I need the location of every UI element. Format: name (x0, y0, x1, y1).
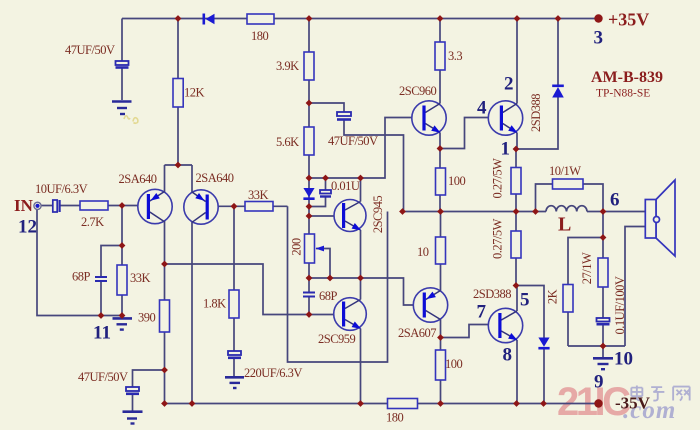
resistor 2.7K (80, 201, 108, 210)
capacitor 220UF/6.3V (228, 351, 241, 355)
resistor 3.3 (435, 42, 445, 70)
svg-text:5.6K: 5.6K (276, 135, 299, 149)
transistor Q2 2SA640 right (mirrored) (184, 190, 218, 224)
wire 0.01U cap leads (309, 178, 326, 207)
junction 68P lag bottom (306, 311, 313, 318)
wire feedback 33K to output (288, 206, 388, 362)
ground 220UF (225, 376, 244, 379)
svg-text:68P: 68P (72, 270, 91, 284)
wire 2SD388 top collector to rail / emitter to node1 (516, 19, 518, 150)
junction 2SC945 base (306, 213, 313, 220)
resistor 0.27/5W lower (511, 231, 521, 258)
resistor 5.6K (304, 127, 314, 155)
junction 47UF tap (161, 367, 168, 374)
resistor 12K (173, 79, 183, 108)
wire 68P branch (101, 246, 122, 316)
svg-text:200: 200 (290, 238, 304, 256)
wire 2SA640 emitters link (165, 165, 193, 191)
terminal -35V dot (594, 399, 602, 407)
junction node 5 top (513, 282, 520, 289)
wire 0.27/5W lower chain (515, 212, 517, 286)
wire bottom -35V rail (165, 403, 599, 405)
junction 2SA607 emitter-100 (437, 334, 444, 341)
junction input base (119, 202, 126, 209)
wire speaker return (625, 227, 645, 347)
junction diode bottom (306, 203, 313, 210)
ground bottom-left 47UF (123, 410, 143, 413)
svg-text:2SD388: 2SD388 (529, 94, 543, 132)
svg-text:0.27/5W: 0.27/5W (491, 218, 505, 259)
wire input to coupling cap (41, 205, 147, 207)
svg-text:10: 10 (417, 245, 429, 259)
wire zobel chain 27/1W + 0.1UF (602, 212, 604, 358)
resistor 180 top (247, 14, 274, 24)
resistor 100 lower (436, 350, 446, 380)
svg-text:8: 8 (503, 344, 513, 365)
transistor Q1 2SA640 left (138, 189, 172, 223)
svg-text:5: 5 (520, 289, 530, 310)
wire 2SC960 collector to rail / emitter down (439, 19, 441, 149)
decorative artifact (124, 116, 138, 124)
capacitor 47UF/50V top-left (116, 61, 129, 65)
wire cap C1 bottom lead to ground (121, 68, 123, 100)
svg-text:3: 3 (594, 27, 604, 48)
junction rail 3.3 (437, 15, 444, 22)
wire node to diode D3 down to rail (516, 286, 544, 404)
svg-text:-35V: -35V (615, 394, 651, 413)
svg-text:2SD388: 2SD388 (473, 287, 511, 301)
junction output node6 (600, 208, 607, 215)
junction pot bottom (306, 275, 313, 282)
diode top rail (206, 14, 215, 24)
resistor 390 (160, 300, 170, 332)
svg-text:IN: IN (14, 196, 34, 215)
junction 68P bottom (98, 312, 105, 319)
speaker (645, 180, 675, 256)
junction rail start (161, 400, 168, 407)
junction 2SA640R base (231, 203, 238, 210)
wire 10/1W bypass loop (536, 184, 604, 212)
transistor 2SA607 (413, 288, 447, 322)
wire 100 ohm upper branch (439, 149, 441, 212)
wire 47UF bottom-left cap branch (133, 370, 165, 411)
resistor 2K (563, 285, 573, 313)
junction rail 3.9K (306, 15, 313, 22)
wire 2SC945 collector up / emitter down (360, 178, 362, 278)
wire 2K branch (568, 238, 625, 347)
wire cap C1 top lead (121, 19, 123, 62)
wire base node down through 33K to ground (121, 206, 123, 319)
junction rail 2SD388 collector (514, 15, 521, 22)
svg-text:47UF/50V: 47UF/50V (65, 43, 115, 57)
wire pot wiper (316, 249, 330, 279)
capacitor 10UF/6.3V input (53, 200, 57, 212)
wire node1 to diode D1 (516, 19, 558, 150)
junction node 1 (513, 146, 520, 153)
junction rail 2SC959 emitter (357, 400, 364, 407)
svg-text:4: 4 (477, 97, 487, 118)
junction 2SC960 emitter (437, 145, 444, 152)
wire input shield down and along bottom (37, 209, 122, 316)
junction rail 2SD388 emitter (513, 400, 520, 407)
svg-text:0.1UF/100V: 0.1UF/100V (613, 276, 627, 334)
svg-text:7: 7 (477, 301, 487, 322)
potentiometer 200 wiper arrow (316, 246, 325, 252)
wire 2SA640R collector down to rail (191, 191, 193, 404)
wire 0.27/5W upper chain (515, 149, 517, 212)
transistor 2SC945 (334, 200, 366, 232)
junction zobel bottom (600, 343, 607, 350)
resistor 10 (436, 237, 446, 264)
svg-text:68P: 68P (319, 289, 338, 303)
capacitor 47UF/50V bottom-left (126, 387, 139, 391)
ground node 11 (113, 317, 133, 320)
diode D2 bias (303, 188, 314, 197)
svg-text:2.7K: 2.7K (81, 215, 104, 229)
svg-text:6: 6 (610, 189, 620, 210)
resistor 180 bottom (388, 399, 418, 409)
junction rail 12K (175, 15, 182, 22)
watermark dianziwang (631, 386, 689, 401)
svg-text:47UF/50V: 47UF/50V (328, 134, 378, 148)
terminal IN node (34, 202, 41, 209)
junction 2SC945 collector (357, 175, 364, 182)
inductor L (546, 206, 587, 212)
svg-text:TP-N88-SE: TP-N88-SE (596, 88, 650, 100)
junction zobel top (600, 234, 607, 241)
junction output tap (399, 208, 406, 215)
junction 0.01U top (322, 175, 329, 182)
resistor 0.27/5W upper (511, 168, 521, 195)
svg-text:100: 100 (445, 357, 463, 371)
svg-text:2SC945: 2SC945 (371, 196, 385, 234)
svg-text:12K: 12K (184, 86, 205, 100)
junction rail D3 (540, 400, 547, 407)
svg-text:390: 390 (138, 311, 156, 325)
wire 2SA640R base to feedback node and 1.8K chain (209, 206, 288, 377)
junction output 100/10 (437, 208, 444, 215)
wire node to 2SC960 base (309, 118, 422, 179)
transistor 2SC960 (412, 101, 446, 135)
capacitor 0.1UF/100V (597, 318, 610, 322)
junction 47UF coupling tap (306, 100, 313, 107)
junction rail D1 (555, 15, 562, 22)
transistor 2SD388 bottom (488, 308, 522, 342)
svg-text:11: 11 (93, 322, 111, 343)
junction output 0.27 (513, 208, 520, 215)
svg-text:2SA607: 2SA607 (398, 326, 436, 340)
svg-text:10UF/6.3V: 10UF/6.3V (35, 182, 88, 196)
svg-text:180: 180 (386, 411, 404, 425)
svg-text:2K: 2K (546, 289, 560, 304)
svg-text:+35V: +35V (608, 10, 649, 30)
svg-text:12: 12 (18, 216, 37, 237)
resistor 33K vertical (117, 265, 127, 295)
resistor 33K feedback (245, 202, 273, 212)
svg-text:10/1W: 10/1W (549, 164, 581, 178)
svg-text:2SA640: 2SA640 (196, 171, 234, 185)
svg-text:0.01U: 0.01U (331, 179, 360, 193)
svg-text:33K: 33K (248, 188, 269, 202)
wire top +35V rail (122, 18, 598, 20)
junction collector L y264 (161, 261, 168, 268)
junction diode top y178 (306, 175, 313, 182)
transistor 2SD388 top (488, 101, 522, 135)
potentiometer 200 body (305, 234, 315, 263)
svg-text:AM-B-839: AM-B-839 (591, 69, 663, 86)
capacitor 0.01U (320, 190, 331, 194)
svg-text:2SC960: 2SC960 (399, 84, 437, 98)
capacitor 47UF/50V coupling (337, 112, 351, 116)
junction emitters 2SA640 (175, 162, 182, 169)
svg-text:27/1W: 27/1W (580, 252, 594, 284)
svg-text:3.9K: 3.9K (276, 59, 299, 73)
wire emitter bus y=278 to 2SA607 base (309, 278, 423, 305)
wire 2SC945 base tap (309, 215, 342, 217)
junction rail 2SA640R (189, 400, 196, 407)
wire y=264 to 2SC959 base (165, 264, 343, 315)
junction output L left (532, 208, 539, 215)
wire 2SC959 collector / emitter (360, 278, 362, 404)
svg-text:1: 1 (501, 138, 511, 159)
wire 2SC960 emitter to 2SD388 base (440, 118, 500, 149)
junction 68P tap (119, 242, 126, 249)
wire 3.9K/5.6K/diode chain at x=309 (308, 19, 310, 315)
svg-text:10: 10 (614, 348, 633, 369)
wire 2SA640L collector chain down to rail (164, 190, 166, 404)
svg-text:L: L (558, 214, 571, 236)
wire 12K branch from rail to emitters node (177, 19, 179, 166)
terminal +35V dot (594, 14, 602, 22)
junction ground 11 (119, 312, 126, 319)
svg-text:2SA640: 2SA640 (119, 172, 157, 186)
svg-text:47UF/50V: 47UF/50V (78, 370, 128, 384)
wire 47UF coupling cap branch (309, 103, 404, 212)
diode D1 near +35V (552, 87, 564, 98)
svg-text:220UF/6.3V: 220UF/6.3V (244, 366, 302, 380)
resistor 10/1W (553, 179, 584, 189)
ground node 10 (593, 357, 613, 360)
wire 2SD388 bottom base link (441, 325, 499, 338)
svg-text:1.8K: 1.8K (203, 297, 226, 311)
svg-text:2: 2 (504, 73, 514, 94)
resistor 100 upper (436, 168, 446, 195)
svg-text:33K: 33K (130, 271, 151, 285)
junction rail 100 lower (437, 400, 444, 407)
junction 2SC945 emitter (357, 275, 364, 282)
wire 2SD388 bottom collector / emitter (516, 286, 518, 404)
resistor 27/1W (598, 258, 608, 287)
svg-text:180: 180 (251, 29, 269, 43)
capacitor 68P lag (303, 293, 315, 297)
svg-text:9: 9 (594, 371, 604, 392)
resistor 3.9K (304, 52, 314, 80)
transistor 2SC959 (334, 298, 367, 331)
capacitor 68P input (95, 277, 107, 281)
svg-text:2SC959: 2SC959 (318, 332, 356, 346)
wire 2SA607 emitter via 10 ohm / collector via 100 ohm (440, 212, 442, 404)
svg-text:3.3: 3.3 (448, 49, 462, 63)
diode D3 bottom (538, 338, 549, 347)
wire output mid rail (403, 211, 646, 213)
resistor 1.8K (229, 290, 239, 318)
ground G1 top-left (112, 100, 132, 103)
svg-text:0.27/5W: 0.27/5W (491, 158, 505, 199)
junction wiper (327, 275, 334, 282)
svg-text:100: 100 (448, 174, 466, 188)
